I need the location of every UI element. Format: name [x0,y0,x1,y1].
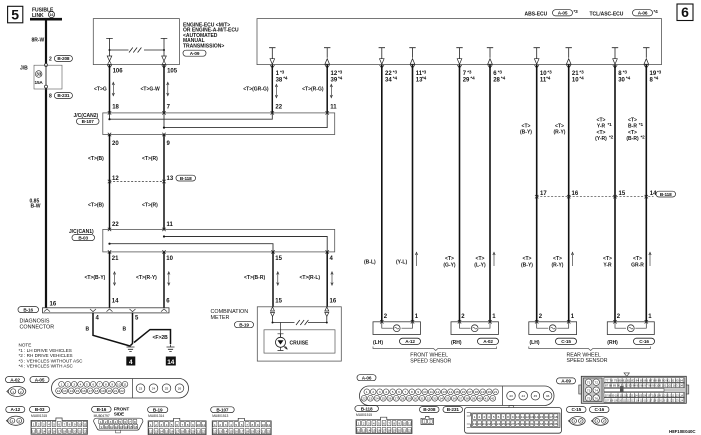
svg-text:A-09: A-09 [561,379,571,384]
svg-text:87 88 89 90 91 92 93 94 95 96: 87 88 89 90 91 92 93 94 95 96 97 98 99 1… [605,384,683,388]
wire R from J/C(CAN2) 9 to J/C(CAN1) 11 [142,135,174,230]
svg-text:21: 21 [494,390,498,394]
svg-text:20: 20 [112,141,119,147]
svg-text:*3: *3 [280,69,285,74]
svg-text:*2: *2 [641,134,646,139]
J/C(CAN1) box [103,229,335,252]
front side note [114,407,130,417]
svg-text:4: 4 [166,423,168,427]
svg-text:6: 6 [92,383,94,387]
svg-text:7: 7 [246,423,248,427]
svg-text:A-06: A-06 [362,375,372,380]
svg-text:30: 30 [618,78,625,84]
svg-text:MU801314: MU801314 [148,414,164,418]
svg-text:CRUISE: CRUISE [290,341,310,347]
wire R-Y from ABS-ECU 21/10 to rear LH sensor 1 [552,65,585,322]
wire GR-G from ABS-ECU 1/38 to J/C(CAN2) 22 [243,65,288,113]
svg-text:4: 4 [385,390,387,394]
svg-text:72: 72 [594,381,598,385]
svg-text:11: 11 [521,415,524,419]
svg-text:4: 4 [129,359,133,366]
svg-text:14: 14 [224,430,228,434]
svg-text:B-19: B-19 [153,407,163,412]
svg-text:22: 22 [112,222,119,228]
svg-text:11: 11 [267,423,270,427]
svg-text:25: 25 [502,422,506,426]
svg-text:16: 16 [50,301,57,307]
svg-text:20: 20 [108,389,112,393]
connector face A-06 [360,386,555,406]
svg-text:42: 42 [491,397,495,401]
svg-text:22: 22 [83,429,87,433]
svg-text:12: 12 [331,71,338,77]
svg-text:29: 29 [521,422,525,426]
svg-text:8R-W: 8R-W [32,38,45,44]
front sensor caption [410,353,451,365]
svg-text:20: 20 [191,430,195,434]
svg-text:NOTE: NOTE [19,343,32,348]
diagnosis connector caption [20,318,55,330]
connector face A-02 [7,386,26,396]
svg-text:28: 28 [516,422,520,426]
svg-text:26: 26 [178,387,182,391]
svg-text:1: 1 [100,420,102,424]
svg-text:1: 1 [12,419,14,423]
svg-text:*1: *1 [608,122,613,127]
svg-text:19: 19 [481,390,485,394]
svg-text:8: 8 [49,94,52,100]
svg-text:11: 11 [330,104,337,110]
svg-text:*3: *3 [498,69,503,74]
svg-text:18: 18 [95,389,99,393]
ENGINE-ECU name text [183,22,239,56]
ECU pin symbols along box bottom [269,48,275,64]
connector face A-05 [52,379,189,399]
connector face A-12 [6,416,23,425]
svg-text:*3: *3 [547,69,552,74]
power wire B-W from fusible link [45,19,48,308]
svg-text:2: 2 [580,419,582,423]
wire R-L from J/C(CAN1) 4 to meter 16 [300,252,337,307]
svg-text:6: 6 [124,420,126,424]
svg-text:23: 23 [369,397,373,401]
svg-text:<T>(B): <T>(B) [88,156,104,162]
svg-text:15: 15 [229,430,233,434]
svg-text:*3: *3 [579,69,584,74]
svg-text:<T>(GR-G): <T>(GR-G) [243,86,269,92]
svg-text:*4: *4 [393,76,398,81]
svg-text:16: 16 [82,389,86,393]
svg-text:24: 24 [375,397,379,401]
svg-text:14: 14 [167,359,175,366]
svg-text:32: 32 [535,422,539,426]
svg-text:4: 4 [80,383,82,387]
svg-text:5: 5 [378,422,380,426]
svg-text:J/C(CAN1): J/C(CAN1) [69,229,94,235]
svg-text:12: 12 [436,390,440,394]
svg-text:10: 10 [196,423,200,427]
svg-text:3: 3 [368,422,370,426]
svg-text:(L-Y): (L-Y) [474,262,486,268]
svg-text:16: 16 [170,430,174,434]
svg-text:9: 9 [101,425,103,429]
svg-text:18: 18 [181,430,185,434]
svg-text:4: 4 [488,415,490,419]
connector label A-12 [6,407,25,413]
svg-text:<T>G-W: <T>G-W [141,86,160,92]
svg-text:18: 18 [475,390,479,394]
svg-text:<T>: <T> [445,256,454,262]
svg-text:13: 13 [37,429,41,433]
svg-text:20: 20 [398,429,402,433]
svg-text:14: 14 [69,389,73,393]
svg-text:23: 23 [492,422,496,426]
svg-text:22: 22 [385,71,392,77]
ground wire from diagnosis pin 5 [123,313,140,346]
svg-text:(B-Y): (B-Y) [521,262,533,268]
svg-text:*4: *4 [422,76,427,81]
svg-text:1: 1 [474,415,476,419]
svg-text:3: 3 [43,422,45,426]
svg-text:7: 7 [129,420,131,424]
svg-text:5: 5 [119,420,121,424]
svg-text:38: 38 [276,78,283,84]
svg-text:14: 14 [112,298,119,304]
svg-text:17: 17 [240,430,244,434]
svg-text:27: 27 [511,422,515,426]
svg-text:6: 6 [498,415,500,419]
svg-text:7: 7 [502,415,504,419]
svg-text:B-118: B-118 [660,192,672,197]
svg-text:16: 16 [235,430,239,434]
svg-text:12: 12 [357,429,361,433]
svg-text:<T>: <T> [628,118,637,124]
svg-text:2: 2 [49,57,52,63]
svg-text:46: 46 [546,394,550,398]
svg-text:16: 16 [572,191,579,197]
in-line connector B-118 dashed (CAN wires 12/13) [108,175,196,183]
connector label B-118 [355,406,379,412]
svg-text:3: 3 [225,423,227,427]
svg-text:21: 21 [196,430,200,434]
meter pin 15 symbol [271,307,275,321]
ground point tag 4 [126,357,135,366]
svg-text:2: 2 [363,422,365,426]
svg-text:21: 21 [261,430,265,434]
svg-text:<T>: <T> [553,256,562,262]
meter internal resistor [272,320,328,325]
svg-text:10: 10 [572,78,579,84]
svg-text:*4: *4 [626,76,631,81]
svg-text:*3: *3 [467,69,472,74]
svg-text:B-R: B-R [628,124,637,130]
svg-text:5: 5 [171,423,173,427]
svg-text:<T>: <T> [633,256,642,262]
svg-text:6: 6 [383,422,385,426]
svg-text:12: 12 [57,389,61,393]
svg-text:4: 4 [230,423,232,427]
svg-text:13: 13 [154,430,158,434]
svg-text:15: 15 [275,256,282,262]
J/C(CAN2) bus wire lower [163,113,327,129]
svg-text:7: 7 [182,423,184,427]
front RH wheel speed sensor G2 [451,320,499,346]
wire G-Y from ABS-ECU 7/29 to front RH sensor 2 [443,65,475,322]
connector label B-16 [92,406,112,412]
svg-text:J/B: J/B [20,66,28,72]
ground wire from diagnosis pin 4 [86,313,131,346]
svg-text:SPEED SENSOR: SPEED SENSOR [410,358,451,364]
svg-text:17: 17 [88,389,92,393]
connector face B-231 [465,406,562,434]
svg-text:2: 2 [603,419,605,423]
svg-text:9: 9 [74,422,76,426]
connector face B-208 [421,417,434,425]
svg-text:(LH): (LH) [373,340,383,346]
svg-text:5: 5 [11,7,19,23]
svg-text:25: 25 [165,387,169,391]
svg-text:1: 1 [61,383,63,387]
svg-text:13: 13 [63,389,67,393]
svg-text:*3: *3 [338,69,343,74]
svg-text:22: 22 [202,430,206,434]
svg-text:12: 12 [213,430,217,434]
connector face C-15 [568,417,585,426]
svg-text:MU801513: MU801513 [212,414,228,418]
svg-text:MU804797: MU804797 [94,414,110,418]
svg-text:*4 : VEHICLES WITH ASC: *4 : VEHICLES WITH ASC [19,364,74,369]
svg-text:16: 16 [330,298,337,304]
svg-text:(B-L): (B-L) [364,259,376,265]
svg-text:5: 5 [53,422,55,426]
svg-text:*4: *4 [501,76,506,81]
svg-text:11: 11 [123,383,126,387]
svg-text:15: 15 [275,298,282,304]
svg-text:15: 15 [47,429,51,433]
svg-text:B-107: B-107 [216,407,229,412]
svg-text:44: 44 [521,394,525,398]
svg-text:B-16: B-16 [23,307,33,312]
svg-text:75: 75 [587,396,591,400]
connector label A-06 [357,375,376,381]
svg-text:7: 7 [99,383,101,387]
svg-text:A-12: A-12 [11,407,21,412]
svg-text:25: 25 [382,397,386,401]
svg-text:11: 11 [430,390,433,394]
svg-text:B-03: B-03 [78,235,88,240]
svg-text:15: 15 [455,390,459,394]
svg-text:39: 39 [472,397,476,401]
svg-text:16: 16 [462,390,466,394]
svg-text:17: 17 [549,415,553,419]
svg-text:9: 9 [512,415,514,419]
svg-text:*4: *4 [338,76,343,81]
svg-text:2: 2 [18,419,20,423]
svg-text:SIDE: SIDE [114,411,124,416]
J/C(CAN2) bus wire upper [108,113,272,120]
svg-text:<T>(B): <T>(B) [88,203,104,209]
svg-text:13: 13 [218,430,222,434]
svg-text:A-05: A-05 [558,11,568,16]
svg-text:26: 26 [506,422,510,426]
svg-text:MU801315: MU801315 [31,414,47,418]
svg-text:22: 22 [275,104,282,110]
svg-text:22: 22 [408,429,412,433]
svg-text:B-118: B-118 [180,176,192,181]
note block [19,343,84,369]
rear LH wheel speed sensor G3 [529,320,577,346]
svg-text:(RH): (RH) [607,340,618,346]
svg-text:A-02: A-02 [483,339,493,344]
svg-text:12: 12 [32,429,36,433]
B-16 label [18,307,39,313]
rear sensor caption [567,353,608,365]
svg-text:1: 1 [424,420,426,424]
svg-text:2: 2 [20,390,22,394]
svg-text:15: 15 [540,415,544,419]
in-line connector B-118 dashed (rear sensor wires 17/16/15/14) [535,191,676,198]
ENGINE-ECU pin 106 symbol [106,38,113,64]
svg-text:10: 10 [403,422,407,426]
svg-text:77 78 79 80 81 82 83 84 85 86: 77 78 79 80 81 82 83 84 85 86 87 88 89 9… [605,379,683,383]
svg-text:18: 18 [554,415,558,419]
svg-text:B-208: B-208 [423,407,436,412]
svg-text:16: 16 [377,429,381,433]
junction block J/B with fuse 33 15A [20,65,62,89]
wire junction marks under ECU boxes [107,65,648,68]
corner index box 5 [8,6,23,23]
svg-text:B-231: B-231 [447,407,460,412]
svg-text:2: 2 [372,390,374,394]
connector label B-03 [30,407,50,413]
svg-text:ABS-ECU: ABS-ECU [525,12,548,18]
svg-text:<T>(B-Y): <T>(B-Y) [85,275,106,281]
svg-text:5: 5 [392,390,394,394]
svg-text:1: 1 [214,423,216,427]
front sensor bracket [373,347,497,351]
svg-text:(R-Y): (R-Y) [552,262,564,268]
wire label 0.85 B-W [30,199,41,210]
svg-text:29: 29 [463,78,470,84]
J/C(CAN2) box [103,113,335,135]
wire G from ENGINE-ECU 106 to J/C(CAN2) 18 [94,65,123,113]
svg-text:<F>2B: <F>2B [153,335,169,341]
wire Y-L from ABS-ECU 11/13 to front LH sensor 1 [396,65,427,322]
ABS-ECU / TCL ECU box U2 [257,19,662,65]
svg-text:16: 16 [545,415,549,419]
svg-text:3: 3 [379,390,381,394]
svg-text:B-231: B-231 [57,93,70,98]
svg-text:TRANSMISSION>: TRANSMISSION> [183,44,224,50]
svg-text:16: 16 [50,13,54,17]
svg-text:10: 10 [105,425,109,429]
svg-text:21: 21 [482,422,486,426]
svg-text:*3: *3 [623,69,628,74]
svg-text:18: 18 [245,430,249,434]
svg-text:(B-R): (B-R) [626,136,639,142]
svg-text:36: 36 [554,422,558,426]
svg-text:5: 5 [493,415,495,419]
svg-text:*4: *4 [283,76,288,81]
svg-text:14: 14 [535,415,539,419]
connector label B-107 [211,407,235,413]
svg-text:CONNECTOR: CONNECTOR [20,324,55,330]
connector face B-107 [212,414,271,435]
svg-text:C-16: C-16 [639,339,649,344]
svg-text:20: 20 [256,430,260,434]
svg-text:4: 4 [115,420,117,424]
svg-text:23: 23 [139,387,143,391]
wire L-Y from ABS-ECU 6/28 to front RH sensor 1 [474,65,505,322]
svg-text:29: 29 [407,397,411,401]
svg-text:5: 5 [86,383,88,387]
svg-text:7: 7 [405,390,407,394]
svg-text:13: 13 [362,429,366,433]
svg-text:38: 38 [465,397,469,401]
svg-text:<T>: <T> [523,256,532,262]
svg-text:18: 18 [387,429,391,433]
ENGINE-ECU internal resistor [109,48,166,53]
svg-text:17: 17 [468,390,472,394]
J/C(CAN2) label [74,113,100,124]
svg-text:35: 35 [549,422,553,426]
svg-text:8: 8 [105,383,107,387]
svg-text:16: 16 [52,429,56,433]
svg-text:11: 11 [408,422,411,426]
svg-text:Y-R: Y-R [597,124,606,130]
svg-text:C-15: C-15 [561,339,571,344]
svg-text:14: 14 [367,429,371,433]
svg-text:6: 6 [241,423,243,427]
svg-text:SPEED SENSOR: SPEED SENSOR [567,358,608,364]
J/C(CAN1) label [69,229,95,241]
svg-text:<T>(R-Y): <T>(R-Y) [136,275,157,281]
svg-text:3: 3 [160,423,162,427]
svg-text:12: 12 [114,425,118,429]
svg-text:6: 6 [176,423,178,427]
svg-text:26: 26 [388,397,392,401]
svg-text:21: 21 [78,429,82,433]
svg-text:*4: *4 [546,76,551,81]
wire B from J/C(CAN2) 20 to J/C(CAN1) 22 [88,135,119,230]
svg-text:30: 30 [414,397,418,401]
fusible link bus wire [30,18,62,21]
svg-text:B: B [123,327,127,333]
connector label C-16 [590,407,610,413]
svg-text:4: 4 [48,422,50,426]
svg-text:*3: *3 [393,69,398,74]
svg-text:METER: METER [211,315,230,321]
svg-text:22: 22 [267,430,271,434]
svg-text:B-03: B-03 [35,407,45,412]
wire R-Y from J/C(CAN1) 10 to diagnosis connector 6 [136,252,174,308]
svg-text:(LH): (LH) [530,340,540,346]
svg-text:12: 12 [149,430,153,434]
wire G-W from ENGINE-ECU 105 to J/C(CAN2) 7 [141,65,178,113]
ground symbol 4 [127,345,135,352]
svg-text:9: 9 [192,423,194,427]
ground branch wire 2B [134,330,171,344]
svg-text:A-12: A-12 [405,339,415,344]
svg-text:8: 8 [187,423,189,427]
svg-text:3: 3 [73,383,75,387]
connector face A-09 [579,373,689,403]
svg-text:15: 15 [76,389,80,393]
connector face B-19 [148,414,206,435]
J/C(CAN1) joints [108,228,329,254]
svg-text:*4: *4 [654,9,659,14]
svg-text:43: 43 [509,394,513,398]
